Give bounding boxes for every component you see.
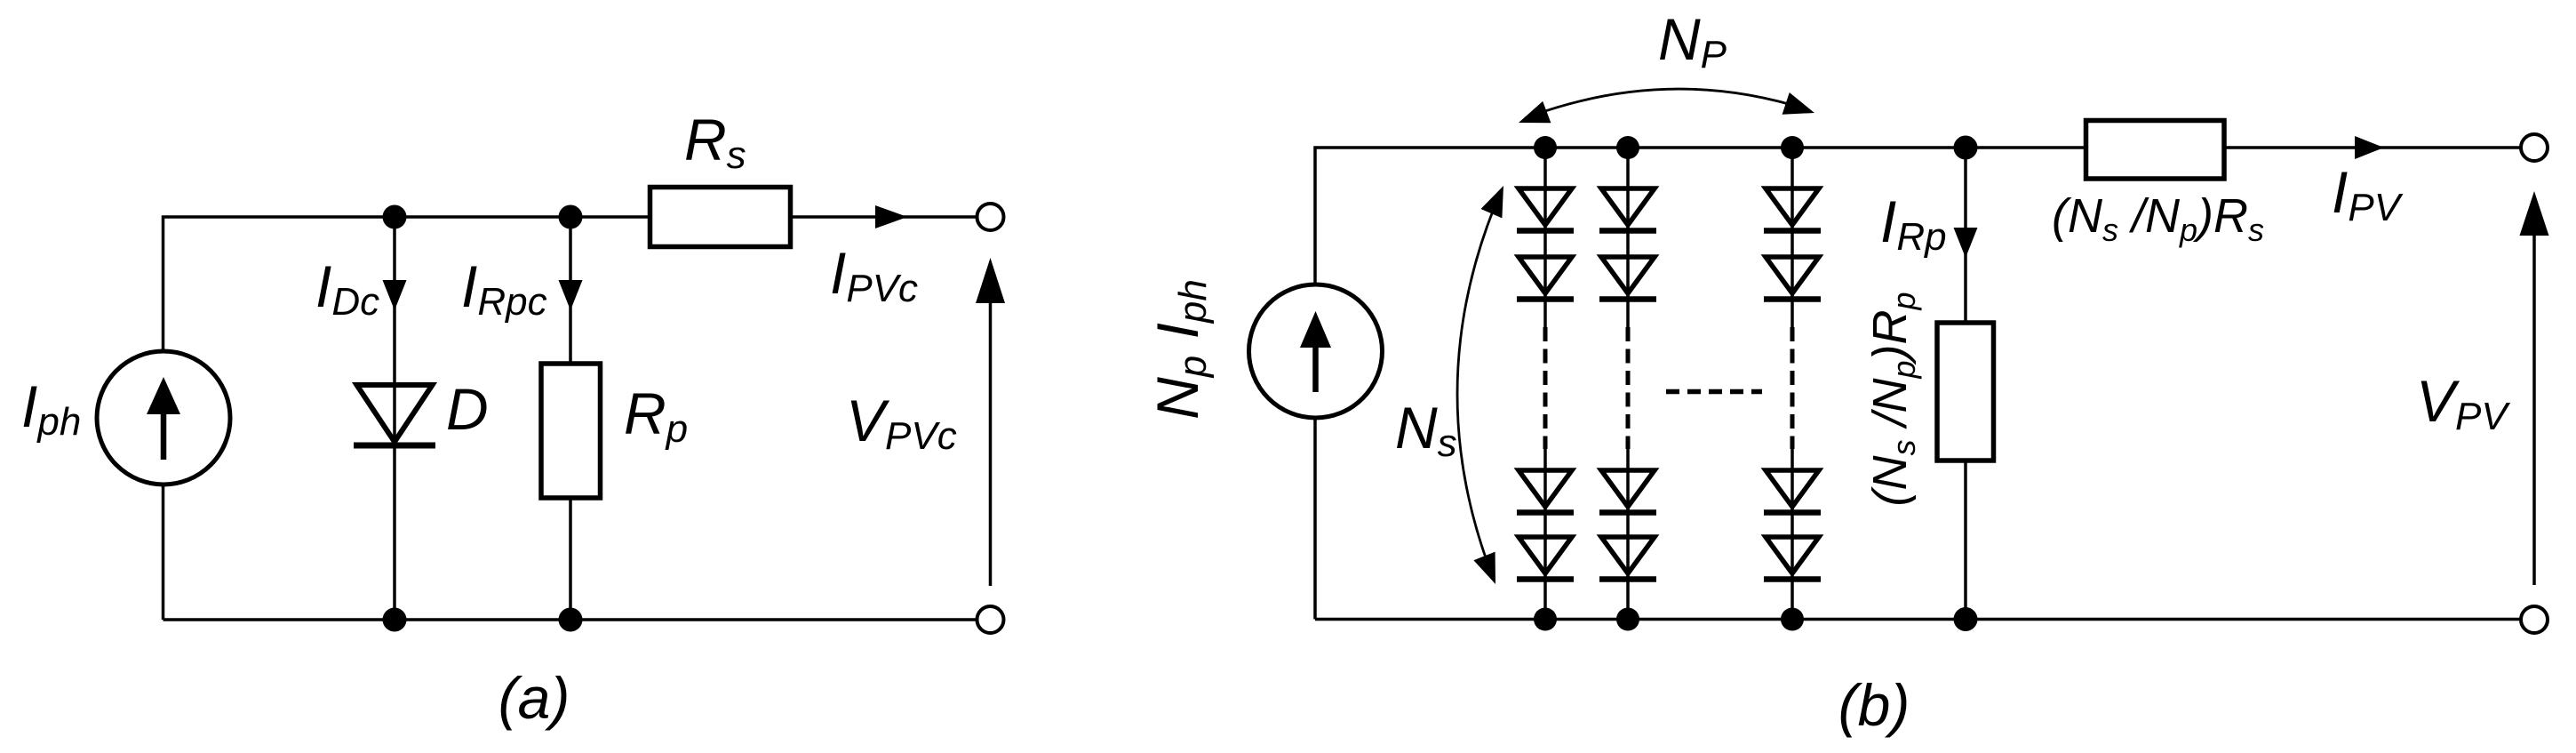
resistor (Ns/Np)Rp (vertical box) bbox=[1937, 323, 1994, 461]
arrow VPVc (voltage) bbox=[976, 258, 1005, 586]
current source Iph (circle with up arrow) bbox=[97, 351, 230, 485]
wire: diode string 1 solid segments bbox=[1543, 148, 1547, 327]
diode D33 bbox=[1766, 470, 1819, 507]
arc arrow Np (parallel count) bbox=[1519, 89, 1814, 123]
node: top of diode string 2 bbox=[1616, 136, 1639, 159]
node: top of Rp branch (b) bbox=[1954, 136, 1978, 160]
terminal: negative output (a) bbox=[977, 606, 1004, 633]
dashed line: ellipsis between strings 2 and 3 bbox=[1666, 389, 1762, 395]
diode D11 bbox=[1519, 188, 1572, 225]
arrow IPV (output current b) bbox=[2355, 136, 2384, 159]
wire: top rail (a) left segment bbox=[163, 217, 650, 620]
svg-text:(b): (b) bbox=[1838, 672, 1910, 738]
svg-text:D: D bbox=[446, 376, 489, 442]
node: bottom of diode branch bbox=[383, 608, 407, 632]
wire: Rp branch vertical top bbox=[569, 217, 572, 364]
diode D34 bbox=[1766, 537, 1819, 573]
wire: Rp branch (b) top bbox=[1964, 148, 1967, 323]
arrow IRpc (current into Rp) bbox=[559, 280, 583, 310]
arc arrow Ns (series count) bbox=[1457, 186, 1503, 584]
arrow VPV (voltage b) bbox=[2520, 191, 2549, 585]
wire: diode string 2 dashed middle segment bbox=[1626, 327, 1631, 449]
wire: diode string 1 dashed middle segment bbox=[1543, 327, 1548, 449]
arrow IRp bbox=[1954, 228, 1978, 258]
wire: bottom rail (b) bbox=[1315, 618, 2521, 621]
diode D21 bbox=[1601, 188, 1655, 225]
resistor Rp (vertical box) bbox=[541, 364, 601, 498]
arrow IPVc (output current) bbox=[875, 205, 907, 228]
wire: diode branch vertical bbox=[393, 217, 396, 620]
diode D32 bbox=[1766, 257, 1819, 293]
node: bottom of diode string 2 bbox=[1616, 608, 1639, 631]
terminal: positive output (b) bbox=[2521, 134, 2548, 161]
diode D bbox=[354, 385, 435, 445]
node: top of Rp branch bbox=[559, 205, 583, 229]
svg-text:(a): (a) bbox=[498, 665, 570, 731]
diode D14 bbox=[1519, 537, 1572, 573]
diode D22 bbox=[1601, 257, 1655, 293]
wire: Rp branch vertical bottom bbox=[569, 498, 572, 620]
terminal: positive output (a) bbox=[977, 204, 1004, 230]
node: bottom of diode string 1 bbox=[1534, 608, 1557, 631]
wire: diode string 3 solid segments bbox=[1790, 148, 1794, 327]
diode D13 bbox=[1519, 470, 1572, 507]
wire: top rail (b) right of Rs box bbox=[2224, 146, 2521, 149]
wire: top rail (b) left of Rs box bbox=[1315, 148, 2086, 284]
wire: diode string 2 solid segments bbox=[1626, 148, 1630, 327]
svg-text:(Ns /Np)Rp: (Ns /Np)Rp bbox=[1863, 292, 1922, 506]
resistor (Ns/Np)Rs (horizontal box) bbox=[2086, 121, 2225, 180]
node: top of diode branch bbox=[383, 205, 407, 229]
diode D12 bbox=[1519, 257, 1572, 293]
diode D23 bbox=[1601, 470, 1655, 507]
wire: diode string 3 dashed middle segment bbox=[1790, 327, 1795, 449]
current source Np Iph (circle with up arrow) bbox=[1249, 284, 1383, 418]
wire: bottom rail (a) bbox=[163, 618, 977, 621]
wire: top rail (a) right segment with output bbox=[791, 215, 977, 219]
node: bottom of Rp branch bbox=[559, 608, 583, 632]
wire: left vertical below source (b) bbox=[1313, 419, 1317, 620]
diode D31 bbox=[1766, 188, 1819, 225]
node: top of diode string 1 bbox=[1534, 136, 1557, 159]
resistor Rs (horizontal box) bbox=[650, 188, 791, 247]
terminal: negative output (b) bbox=[2521, 606, 2548, 633]
node: bottom of Rp branch (b) bbox=[1954, 607, 1978, 631]
svg-text:(Ns /Np)Rs: (Ns /Np)Rs bbox=[2052, 189, 2264, 248]
diode D24 bbox=[1601, 537, 1655, 573]
wire: Rp branch (b) bottom bbox=[1964, 461, 1967, 620]
node: bottom of diode string 3 bbox=[1781, 608, 1804, 631]
arrow IDc (current into diode) bbox=[383, 280, 407, 310]
node: top of diode string 3 bbox=[1781, 136, 1804, 159]
